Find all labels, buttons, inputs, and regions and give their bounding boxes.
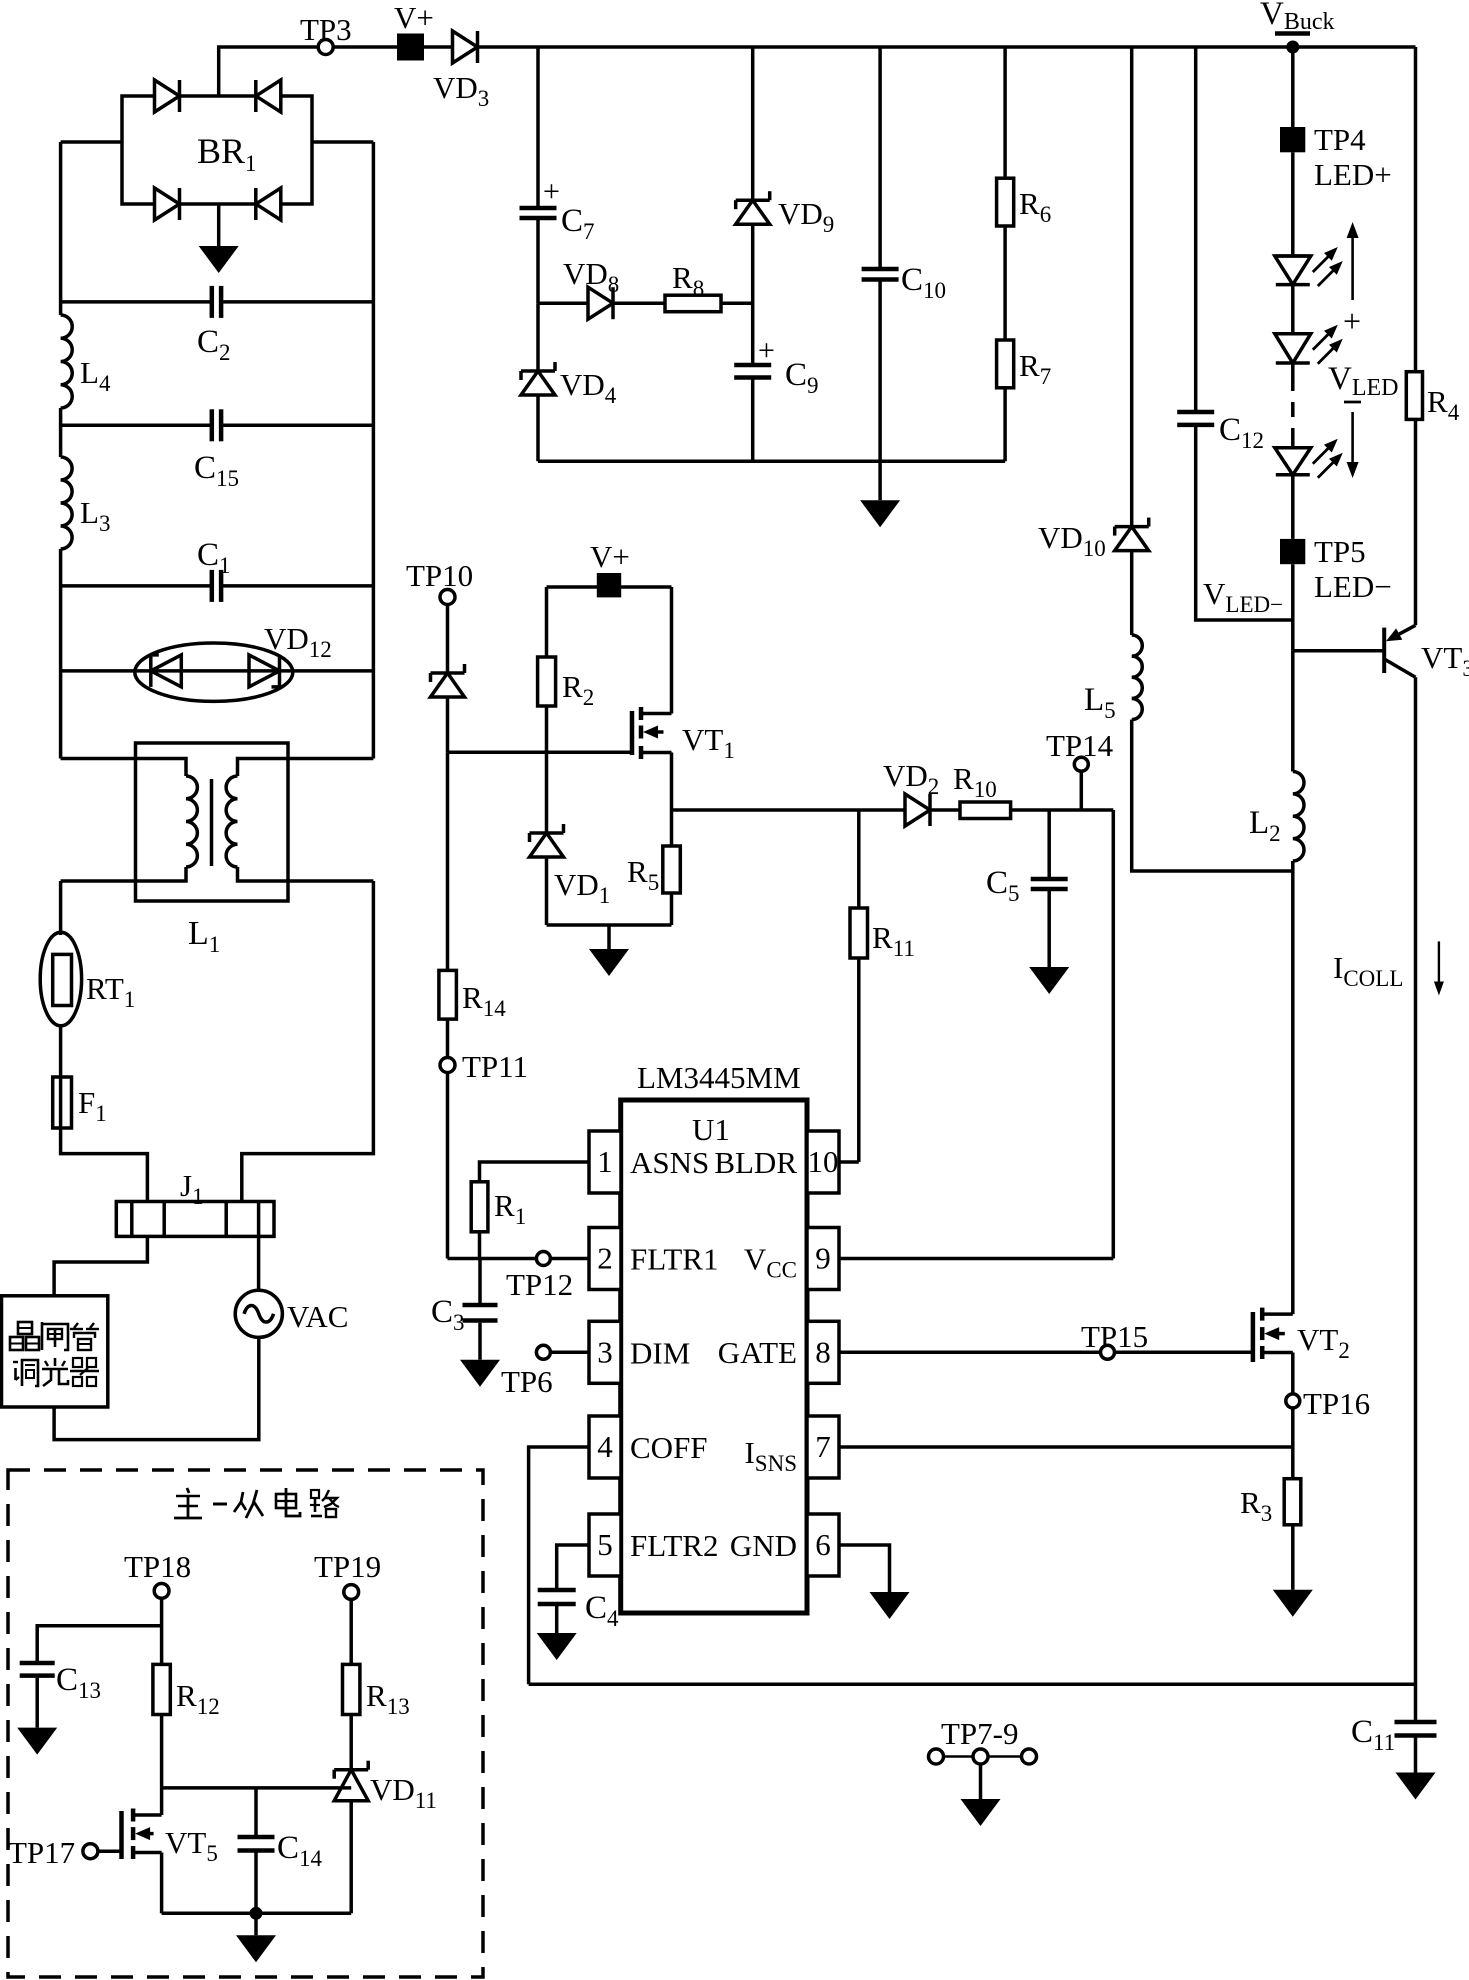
wire top rail drop to C7 — [536, 47, 540, 206]
wire ASNS pin 1 to R1 — [480, 1162, 590, 1182]
svg-text:8: 8 — [815, 1334, 831, 1369]
capacitor C11 — [1351, 1714, 1437, 1755]
wire left rail upper — [59, 142, 63, 315]
svg-text:TP4: TP4 — [1314, 122, 1366, 157]
transistor VT5 — [122, 1809, 218, 1867]
svg-text:LED+: LED+ — [1314, 157, 1392, 192]
zener diode (TP10 branch) — [431, 664, 465, 697]
capacitor C9 (polarized) — [734, 334, 818, 398]
diode VD2 — [883, 758, 939, 826]
wire LED1 to LED2 — [1291, 285, 1295, 334]
svg-text:5: 5 — [597, 1527, 613, 1562]
zener diode VD1 — [530, 824, 611, 908]
wire C14 to bottom — [254, 1852, 258, 1913]
test point TP10 — [406, 558, 473, 605]
wire TP18 branch to C13 — [37, 1626, 161, 1661]
wire R12 to VD11 row — [160, 1715, 164, 1788]
annotation V_LED arrows — [1328, 222, 1399, 478]
wire left rail to RT1 — [59, 881, 63, 935]
thyristor dimmer box (晶闸管调光器) — [2, 1296, 108, 1407]
connector J1 — [116, 1168, 274, 1236]
wire TP18 to R12 — [160, 1598, 164, 1664]
wire TP17 to VT5 gate — [98, 1849, 122, 1853]
inductor L4 — [61, 315, 111, 408]
capacitor C12 — [1177, 412, 1264, 453]
test point TP11 — [440, 1049, 528, 1084]
svg-text:FLTR2: FLTR2 — [630, 1528, 718, 1563]
LED D3 — [1275, 439, 1343, 478]
wire VD4 to bottom rail — [536, 395, 540, 461]
svg-text:GND: GND — [730, 1528, 797, 1563]
net label V_LED- — [1203, 576, 1283, 617]
thermistor RT1 — [40, 932, 135, 1026]
svg-text:LED−: LED− — [1314, 569, 1392, 604]
svg-text:U1: U1 — [692, 1112, 730, 1147]
test point TP17 — [8, 1835, 98, 1870]
capacitor C13 — [20, 1662, 101, 1703]
ground below VCC section — [860, 461, 900, 527]
capacitor C2 — [61, 286, 374, 365]
node V+ (VT1 cell) — [590, 539, 630, 597]
svg-text:TP3: TP3 — [300, 12, 352, 47]
ground below VT1 cell — [589, 925, 629, 976]
ground below master-slave — [236, 1913, 276, 1962]
svg-text:TP19: TP19 — [314, 1549, 381, 1584]
wire TP5 to VT3 base node — [1291, 564, 1295, 651]
test point TP19 — [314, 1549, 381, 1599]
svg-text:TP7-9: TP7-9 — [941, 1716, 1019, 1751]
wire DIM pin 3 — [550, 1351, 589, 1355]
svg-text:TP15: TP15 — [1081, 1319, 1148, 1354]
wire master-slave bottom — [162, 1912, 352, 1916]
resistor R3 — [1240, 1479, 1301, 1526]
wire VD2 to R10 — [930, 808, 960, 812]
resistor R14 — [439, 970, 506, 1021]
node V_Buck — [1260, 0, 1335, 54]
svg-text:FLTR1: FLTR1 — [630, 1242, 718, 1277]
test point TP16 — [1286, 1386, 1370, 1421]
wire left rail between L4 and L3 — [59, 408, 63, 457]
wire R6 to R7 — [1003, 226, 1007, 340]
capacitor C5 — [986, 810, 1068, 906]
LED D1 — [1275, 247, 1343, 286]
transformer L1 — [61, 743, 374, 957]
svg-text:TP11: TP11 — [462, 1049, 528, 1084]
resistor R12 — [153, 1664, 220, 1719]
wire RT1 to F1 — [59, 1026, 63, 1077]
ground below R3 — [1273, 1525, 1313, 1617]
svg-text:+: + — [1343, 303, 1361, 339]
resistor R2 — [538, 657, 595, 710]
svg-text:V+: V+ — [394, 0, 434, 35]
test point TP6 — [501, 1345, 553, 1399]
wire gate of VT1 — [448, 751, 633, 755]
svg-text:9: 9 — [815, 1241, 831, 1276]
capacitor C14 — [238, 1788, 323, 1871]
wire COFF pin 4 to bottom rail — [529, 1447, 589, 1684]
wire R7 to bottom rail — [1003, 388, 1007, 461]
node V+ (input) — [394, 0, 434, 61]
test point TP3 — [300, 12, 352, 55]
wire top rail drop to R4 — [1414, 47, 1418, 372]
wire TP19 to R13 — [349, 1599, 353, 1664]
zener diode VD4 — [521, 303, 617, 408]
svg-text:V+: V+ — [590, 539, 630, 574]
inductor L3 — [61, 457, 111, 549]
svg-text:TP10: TP10 — [406, 558, 473, 593]
svg-text:2: 2 — [597, 1241, 613, 1276]
ground below C3 — [460, 1323, 500, 1387]
ground below C4 — [537, 1606, 577, 1660]
wire VT5 drain up — [160, 1788, 164, 1815]
capacitor C3 — [431, 1259, 498, 1336]
wire VD11 row — [162, 1786, 352, 1790]
IC U1 LM3445MM body — [589, 1060, 839, 1613]
diode pair VD12 — [61, 621, 374, 701]
svg-text:GATE: GATE — [718, 1335, 797, 1370]
bridge rectifier BR1 — [122, 80, 312, 220]
wire VD11 to bottom — [349, 1801, 353, 1914]
diode VD8 — [538, 256, 619, 319]
test point TP12 — [506, 1252, 573, 1303]
svg-text:TP5: TP5 — [1314, 534, 1366, 569]
svg-text:BLDR: BLDR — [714, 1145, 797, 1180]
wire J1 right pin to VAC — [257, 1236, 261, 1290]
wire GND pin 6 to ground — [839, 1545, 890, 1592]
resistor R1 — [471, 1182, 526, 1232]
wire VT1 cell bottom — [547, 923, 672, 927]
ground below C11 — [1396, 1738, 1436, 1800]
wire top rail drop to VD10 — [1130, 47, 1134, 527]
wire LED string top — [1291, 47, 1295, 127]
svg-text:VAC: VAC — [287, 1299, 348, 1334]
capacitor C4 — [538, 1590, 619, 1631]
resistor R11 — [850, 908, 915, 961]
wire zener to gate node — [446, 697, 450, 752]
wire R13 to VD11 — [349, 1715, 353, 1770]
IC U1 pin labels — [597, 1144, 838, 1563]
wire VT1 drain to V+ rail — [670, 587, 674, 714]
wire FLTR1 pin 2 row — [448, 1257, 590, 1261]
wire VT1 source to VD2 — [672, 808, 906, 812]
LED D2 — [1275, 325, 1343, 364]
transistor VT3 — [1293, 625, 1469, 681]
resistor R7 — [997, 340, 1052, 389]
wire right rail to J1 — [242, 881, 374, 1202]
wire C10 to bottom rail — [878, 281, 882, 461]
svg-text:6: 6 — [815, 1527, 831, 1562]
svg-text:TP16: TP16 — [1303, 1386, 1370, 1421]
wire F1 to J1 left pin — [61, 1128, 148, 1202]
wire top rail drop to C12 — [1194, 47, 1198, 410]
ground below C13 — [17, 1678, 57, 1755]
wire R11 to BLDR pin — [857, 958, 861, 1162]
resistor R5 — [627, 846, 680, 895]
svg-text:LM3445MM: LM3445MM — [637, 1060, 801, 1095]
wire VT1 source down — [670, 753, 674, 847]
wire R8 to VD9 column — [721, 301, 753, 305]
svg-text:TP12: TP12 — [506, 1267, 573, 1302]
junction dot (master-slave ground node) — [250, 1907, 263, 1920]
wire VD9 to C9 — [751, 224, 755, 363]
capacitor C7 (polarized) — [520, 175, 595, 244]
svg-text:DIM: DIM — [630, 1335, 690, 1370]
wire C7 to VD8 node — [536, 219, 540, 303]
wire VD8 to R8 — [613, 301, 665, 305]
wire VD2 node to R11 — [857, 810, 861, 908]
zener diode VD11 — [334, 1761, 437, 1813]
transistor VT2 — [1253, 1308, 1350, 1363]
svg-text:ASNS: ASNS — [630, 1145, 709, 1180]
wire gate node to R14 — [446, 752, 450, 970]
wire GATE pin 8 to VT2 gate — [839, 1351, 1253, 1355]
ground for pin 6 — [870, 1592, 910, 1619]
wire V+ to R2 — [545, 587, 549, 657]
wire TP10 to zener — [446, 605, 450, 674]
svg-text:10: 10 — [808, 1144, 839, 1179]
master-slave box (主-从电路) — [8, 1470, 483, 1977]
wire V+ rail of VT1 cell — [547, 585, 672, 589]
test points TP7-9 — [929, 1716, 1037, 1826]
wire LED3 to TP5 — [1291, 475, 1295, 539]
wire FLTR2 pin 5 to C4 — [557, 1545, 589, 1588]
resistor R10 — [953, 761, 1011, 819]
capacitor C15 — [61, 409, 374, 491]
current label I_COLL — [1333, 941, 1444, 995]
wire L2 to VT2 drain — [1291, 861, 1295, 1314]
zener diode VD9 — [736, 191, 835, 237]
svg-text:TP6: TP6 — [501, 1364, 553, 1399]
wire TP4 to LED1 — [1291, 152, 1295, 256]
wire R14 to TP11 — [446, 1019, 450, 1058]
ground below C5 — [1029, 891, 1069, 994]
fuse F1 — [53, 1077, 107, 1128]
wire right rail upper — [372, 142, 376, 759]
svg-text:4: 4 — [597, 1429, 613, 1464]
wire top rail drop to C10 — [878, 47, 882, 267]
svg-text:COFF: COFF — [630, 1430, 708, 1465]
test point TP14 — [1046, 728, 1114, 810]
transistor VT1 — [632, 707, 735, 763]
wire R5 to bottom — [670, 893, 674, 925]
wire BR1 left input — [61, 140, 122, 144]
wire top rail drop to VD9 — [751, 47, 755, 200]
resistor R8 — [665, 260, 721, 312]
AC source VAC — [235, 1290, 348, 1337]
wire C9 to bottom rail — [751, 379, 755, 462]
zener diode VD10 — [1038, 518, 1149, 561]
inductor L5 — [1084, 635, 1142, 723]
svg-text:+: + — [758, 334, 775, 367]
svg-text:TP18: TP18 — [124, 1549, 191, 1584]
wire VD1 to bottom — [545, 857, 549, 925]
wire L5 to L2 bottom — [1132, 720, 1293, 871]
wire BR1 right input — [312, 140, 373, 144]
wire C12 to V_LED- corner — [1196, 426, 1293, 620]
wire top rail from BR1 to right side — [219, 47, 1416, 96]
ground below BR1 — [199, 204, 239, 273]
wire VCC pin 9 — [839, 1257, 1113, 1261]
wire TP11 down to FLTR1 row — [446, 1073, 450, 1259]
svg-text:TP17: TP17 — [8, 1835, 75, 1870]
test point TP5 (pad) — [1280, 534, 1392, 604]
wire VT2 source down — [1291, 1353, 1295, 1479]
test point TP15 — [1081, 1319, 1148, 1359]
wire dashed (more LEDs) — [1291, 363, 1295, 448]
svg-text:1: 1 — [597, 1144, 613, 1179]
wire left rail below L3 — [59, 549, 63, 759]
wire top rail drop to R6 — [1003, 47, 1007, 178]
wire R4 to VT3 emitter — [1414, 419, 1418, 625]
wire BLDR pin 10 — [839, 1160, 859, 1164]
wire VT3 base node to L2 — [1291, 651, 1295, 772]
capacitor C1 — [61, 537, 374, 602]
svg-text:7: 7 — [815, 1429, 831, 1464]
wire VCC section bottom rail — [538, 459, 1005, 463]
wire VT3 collector riser — [1414, 677, 1418, 1720]
wire R10 to VCC corner — [1011, 808, 1114, 812]
svg-text:3: 3 — [597, 1334, 613, 1369]
wire R2 to VD1 — [545, 706, 549, 833]
svg-text:+: + — [543, 175, 560, 208]
resistor R6 — [997, 178, 1052, 227]
wire VCC riser — [1112, 810, 1116, 1259]
test point TP4 (pad) — [1280, 122, 1392, 192]
wire VT5 source down — [160, 1853, 164, 1914]
resistor R4 — [1406, 372, 1459, 425]
wire ISNS pin 7 to VT2 source — [839, 1445, 1293, 1449]
wire J1 to dimmer box — [54, 1236, 147, 1295]
capacitor C10 — [862, 262, 946, 303]
wire R1 to FLTR1 row — [478, 1232, 482, 1259]
svg-text:TP14: TP14 — [1046, 728, 1114, 763]
diode VD3 — [433, 31, 489, 111]
inductor L2 — [1249, 772, 1304, 862]
wire VD10 to L5 — [1130, 551, 1134, 635]
wire bottom rail (COFF to C11) — [529, 1683, 1416, 1687]
resistor R13 — [343, 1664, 410, 1719]
test point TP18 — [124, 1549, 191, 1598]
wire dimmer to VAC — [54, 1337, 259, 1439]
svg-text:VT3: VT3 — [1421, 640, 1469, 681]
